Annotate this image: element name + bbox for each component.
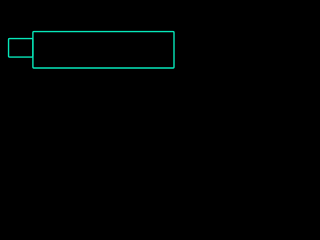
diagram canvas [0,0,200,150]
large block (right) [33,32,174,68]
small block (left) [9,39,33,58]
